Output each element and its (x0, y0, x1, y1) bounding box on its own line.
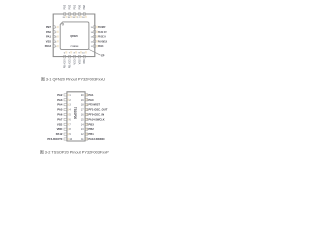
svg-text:PA13: PA13 (45, 44, 52, 48)
QFN pin 5 PA13 (left): label, edge box, number cell (45, 44, 59, 48)
svg-text:VDD: VDD (57, 127, 63, 131)
svg-text:PB3: PB3 (64, 4, 67, 9)
TSSOP pin 15 PA14-SWCLK (right): number, tan box, label (81, 117, 105, 121)
svg-text:PA6: PA6 (57, 113, 63, 117)
TSSOP pin 7 VSS (left): label, box, tan cell, number (57, 122, 72, 126)
svg-text:图 3-2 TSSOP20 Pinout PY32F003F: 图 3-2 TSSOP20 Pinout PY32F003FxxP (40, 150, 109, 154)
svg-text:PA13-SWDIO: PA13-SWDIO (88, 137, 105, 141)
svg-text:PF4-BOOT0: PF4-BOOT0 (47, 137, 62, 141)
svg-text:PA14-SWCLK: PA14-SWCLK (88, 117, 104, 121)
svg-text:PA0: PA0 (88, 98, 94, 102)
QFN pin 9 VSS (bottom): number cell, edge box, vertical label (78, 51, 82, 64)
QFN pin 8 VDD (bottom): number cell, edge box, vertical label (73, 51, 77, 64)
TSSOP pin 11 PA13-SWDIO (right): number, tan box, label (81, 137, 105, 141)
svg-text:PY32F003: PY32F003 (71, 46, 79, 48)
svg-text:VSS: VSS (46, 39, 51, 43)
svg-text:PB1-ADC5: PB1-ADC5 (69, 59, 72, 68)
TSSOP pin 4 PA5 (left): label, box, tan cell, number (57, 108, 71, 112)
svg-text:PA0: PA0 (46, 30, 51, 34)
svg-text:PF2-NRST: PF2-NRST (98, 26, 106, 29)
TSSOP pin 6 PA7 (left): label, box, tan cell, number (57, 117, 71, 121)
svg-text:PF0-OSC_IN: PF0-OSC_IN (88, 113, 104, 117)
TSSOP pin 18 PF2-NRST (right): number, tan box, label (81, 103, 100, 107)
TSSOP pin 17 PF1-OSC_OUT (right): number, tan box, label (81, 108, 108, 112)
TSSOP pin 9 PA12 (left): label, box, tan cell, number (56, 132, 72, 136)
QFN pin 10 PA8 (bottom): number cell, edge box, vertical label (82, 51, 87, 64)
QFN pin 1 PB7 (left): label, edge box, number cell (46, 25, 59, 29)
TSSOP pin 3 PA4 (left): label, box, tan cell, number (57, 103, 71, 107)
svg-text:PA7: PA7 (57, 117, 63, 121)
svg-text:PB2: PB2 (88, 127, 94, 131)
svg-text:PF0-OSC_IN: PF0-OSC_IN (98, 36, 106, 39)
svg-text:PB2: PB2 (69, 4, 72, 9)
QFN pin 19 PB2 (top): vertical label, edge box, number cell (67, 4, 72, 19)
QFN pin 3 PA1 (left): label, edge box, number cell (46, 35, 59, 39)
QFN pin 13 PF0-OSC_IN (right): number, edge box, tan cell, label (91, 35, 106, 38)
svg-text:PA4: PA4 (57, 103, 63, 107)
svg-text:VSS: VSS (78, 59, 81, 64)
TSSOP pin 12 PB1 (right): number, tan box, label (81, 132, 94, 136)
svg-text:TSSOP20: TSSOP20 (73, 107, 77, 119)
QFN pin 7 PB1-ADC5 (bottom): number cell, edge box, vertical label (69, 51, 73, 68)
svg-text:PB3: PB3 (88, 122, 94, 126)
svg-text:PB0-ADC4: PB0-ADC4 (64, 59, 67, 68)
TSSOP pin 5 PA6 (left): label, box, tan cell, number (57, 113, 71, 117)
TSSOP20 package body (67, 92, 85, 141)
QFN pin 12 PA14-SWCLK (right): number, edge box, tan cell, label (91, 40, 108, 43)
QFN pin 14 PF1-OSC_OUT (right): number, edge box, tan cell, label (91, 31, 107, 34)
QFN pin 11 PA13 (right): number, edge box, tan cell, label (91, 45, 104, 48)
svg-text:VDD: VDD (73, 59, 76, 64)
TSSOP pin 2 PA3 (left): label, box, tan cell, number (57, 98, 71, 102)
svg-text:PF1-OSC_OUT: PF1-OSC_OUT (98, 31, 107, 34)
svg-text:PA13: PA13 (98, 45, 104, 48)
QFN pin 6 PB0-ADC4 (bottom): number cell, edge box, vertical label (64, 51, 68, 68)
svg-text:PA14-SWCLK: PA14-SWCLK (98, 40, 107, 43)
QFN pin 16 PA8 (top): vertical label, edge box, number cell (82, 4, 87, 18)
TSSOP pin 1 PA2 (left): label, box, tan cell, number (57, 93, 71, 97)
QFN20 inner pad outline with chamfered pin-1 corner (60, 22, 89, 50)
svg-text:PA12: PA12 (56, 132, 63, 136)
TSSOP pin 16 PF0-OSC_IN (right): number, tan box, label (81, 113, 104, 117)
QFN pin 15 PF2-NRST (right): number, edge box, tan cell, label (91, 26, 106, 29)
svg-text:PA1: PA1 (88, 93, 94, 97)
svg-text:PA5: PA5 (57, 108, 63, 112)
QFN20 package outer body (53, 14, 95, 57)
svg-text:EP: EP (101, 55, 105, 58)
TSSOP pin 10 PF4-BOOT0 (left): label, box, tan cell, number (47, 137, 72, 141)
svg-text:PB0: PB0 (78, 4, 81, 9)
QFN outline re-stroke over pin boxes (53, 14, 95, 57)
svg-text:PB1: PB1 (73, 4, 76, 9)
svg-text:PB1: PB1 (88, 132, 94, 136)
svg-text:PA3: PA3 (57, 98, 63, 102)
QFN pin 20 PB3 (top): vertical label, edge box, number cell (63, 4, 68, 19)
EP exposed pad callout line (89, 49, 101, 55)
TSSOP pin 20 PA1 (right): number, tan box, label (81, 93, 94, 97)
TSSOP pin 8 VDD (left): label, box, tan cell, number (57, 127, 72, 131)
TSSOP outline re-stroke over pin boxes (67, 92, 85, 141)
svg-text:PB7: PB7 (46, 25, 52, 29)
QFN pin 18 PB1 (top): vertical label, edge box, number cell (72, 4, 77, 19)
QFN pin 17 PB0 (top): vertical label, edge box, number cell (77, 4, 82, 19)
svg-text:PA8: PA8 (83, 59, 86, 64)
QFN pin 2 PA0 (left): label, edge box, number cell (46, 30, 59, 34)
svg-text:PA2: PA2 (57, 93, 63, 97)
svg-text:PA8: PA8 (83, 4, 86, 9)
svg-text:PF1-OSC_OUT: PF1-OSC_OUT (88, 108, 107, 112)
svg-text:图 3-1 QFN20 Pinout PY32F003Fxx: 图 3-1 QFN20 Pinout PY32F003FxxU (41, 77, 105, 81)
QFN pin 4 VSS (left): label, edge box, number cell (46, 39, 59, 43)
TSSOP pin 13 PB2 (right): number, tan box, label (81, 127, 94, 131)
svg-text:PA1: PA1 (46, 35, 51, 39)
svg-text:PF2-NRST: PF2-NRST (88, 103, 100, 107)
TSSOP pin 14 PB3 (right): number, tan box, label (81, 122, 94, 126)
TSSOP pin 19 PA0 (right): number, tan box, label (81, 98, 94, 102)
svg-text:VSS: VSS (57, 122, 63, 126)
svg-text:QFN20: QFN20 (70, 34, 78, 38)
pin 1 indicator dot (62, 23, 64, 25)
